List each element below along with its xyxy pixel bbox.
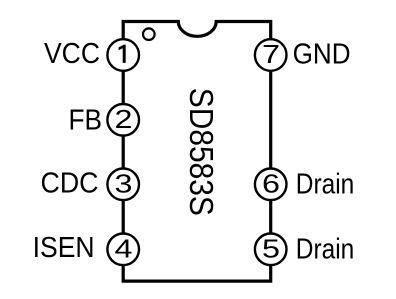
svg-text:SD8583S: SD8583S bbox=[183, 88, 220, 216]
pin 2 circle bbox=[107, 104, 139, 136]
svg-text:7: 7 bbox=[262, 39, 280, 69]
IC package outline U1 (body with top notch) bbox=[123, 22, 271, 282]
svg-text:Drain: Drain bbox=[296, 234, 355, 266]
pin 6 circle bbox=[255, 169, 287, 201]
pin 5 circle bbox=[255, 234, 287, 266]
svg-text:ISEN: ISEN bbox=[33, 232, 95, 264]
pin 3 circle bbox=[107, 169, 139, 201]
svg-text:Drain: Drain bbox=[296, 169, 355, 201]
pin 4 circle bbox=[107, 234, 139, 266]
svg-text:4: 4 bbox=[115, 233, 133, 263]
svg-text:CDC: CDC bbox=[41, 168, 99, 200]
pin 1 circle bbox=[107, 39, 139, 71]
svg-text:GND: GND bbox=[293, 38, 351, 70]
svg-text:3: 3 bbox=[115, 168, 133, 198]
svg-text:2: 2 bbox=[115, 104, 133, 134]
pin 7 circle bbox=[255, 39, 287, 71]
svg-text:5: 5 bbox=[262, 233, 280, 263]
svg-text:6: 6 bbox=[262, 168, 280, 198]
svg-text:FB: FB bbox=[69, 105, 103, 137]
pin 1 number bbox=[119, 45, 126, 63]
pin-1 indicator dot bbox=[143, 28, 155, 40]
svg-text:VCC: VCC bbox=[44, 38, 100, 70]
